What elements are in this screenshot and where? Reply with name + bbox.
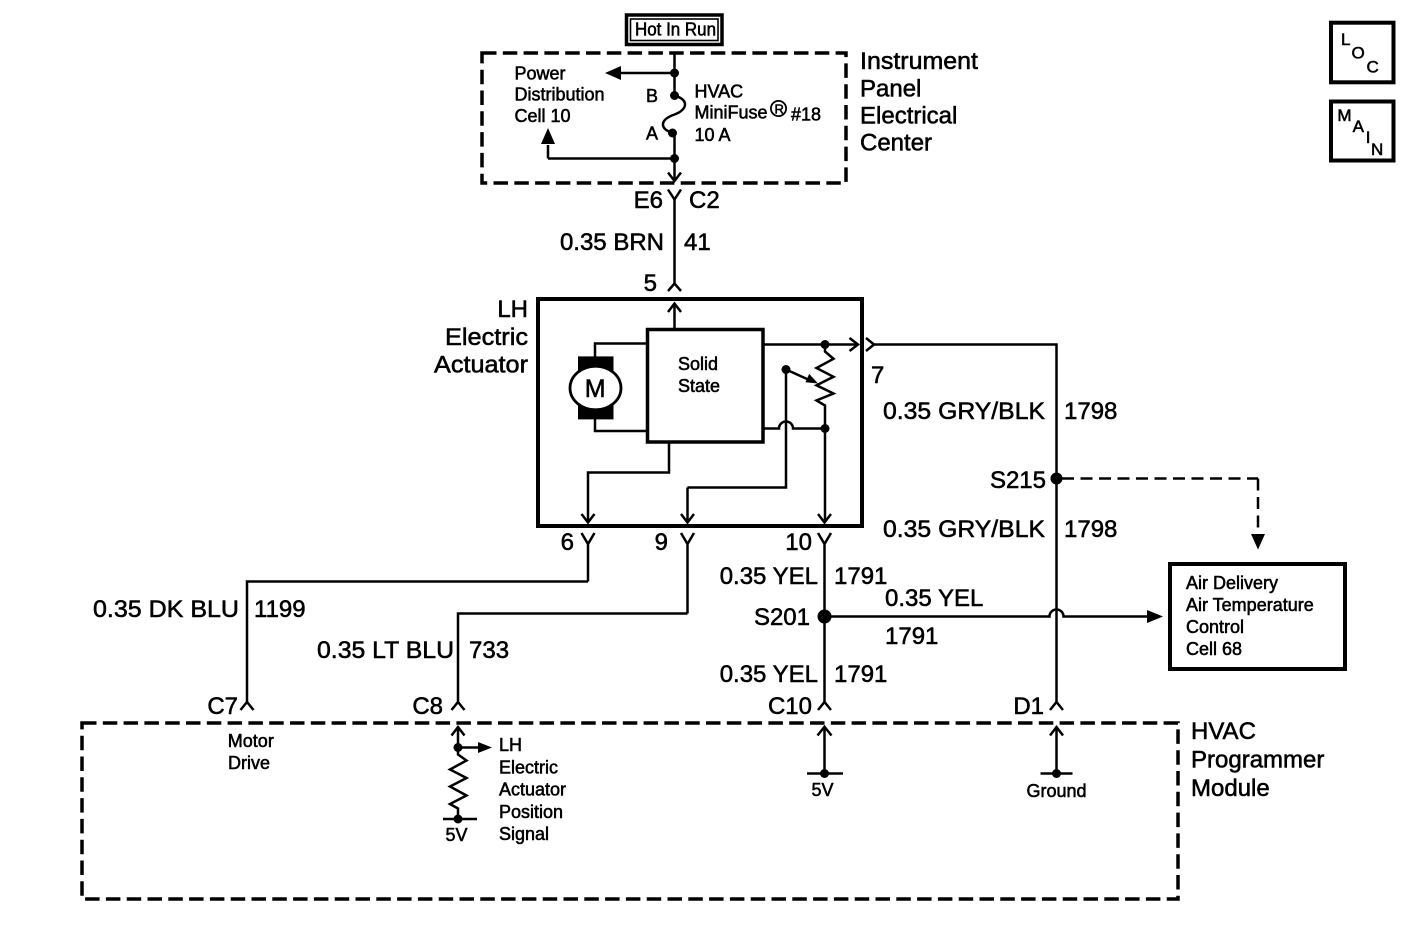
svg-text:C8: C8 bbox=[412, 693, 443, 720]
svg-text:Cell 10: Cell 10 bbox=[515, 106, 571, 126]
D1 entry arrow (open chevron up) bbox=[1050, 727, 1063, 774]
svg-text:0.35 BRN: 0.35 BRN bbox=[560, 229, 664, 256]
svg-text:M: M bbox=[585, 375, 606, 403]
wire motor bottom to solid state bbox=[595, 418, 648, 431]
svg-text:A: A bbox=[1353, 117, 1365, 136]
connector 6 (Y symbol) bbox=[582, 533, 595, 582]
svg-text:0.35 YEL: 0.35 YEL bbox=[720, 563, 818, 590]
wire solid state to pot bottom (with hop) bbox=[763, 422, 825, 429]
wire S201 to Air Delivery (with hop over 1798 wire) bbox=[825, 610, 1149, 617]
svg-text:1791: 1791 bbox=[834, 563, 887, 590]
svg-text:LH: LH bbox=[499, 735, 522, 755]
connector 7 chevron bbox=[866, 338, 874, 351]
svg-text:Electrical: Electrical bbox=[860, 103, 957, 130]
pin 5 caret connector bbox=[668, 284, 681, 292]
svg-text:Power: Power bbox=[515, 64, 566, 84]
Instrument Panel Electrical Center dashed box bbox=[482, 53, 846, 183]
junction at potentiometer top bbox=[821, 340, 830, 349]
position sense resistor inside module bbox=[450, 748, 467, 820]
svg-text:Programmer: Programmer bbox=[1191, 747, 1324, 774]
connector C7 caret bbox=[241, 702, 254, 710]
HVAC Programmer Module dashed box bbox=[82, 723, 1178, 899]
label Motor Drive (C7 function) bbox=[228, 731, 274, 773]
wire 0.35 BRN 41 bbox=[673, 200, 676, 285]
svg-text:A: A bbox=[646, 124, 658, 144]
svg-text:Instrument: Instrument bbox=[860, 48, 978, 75]
C10 entry arrow (open chevron up) bbox=[818, 727, 832, 774]
svg-text:C2: C2 bbox=[689, 187, 720, 214]
C8 entry arrow (open chevron up) bbox=[452, 727, 465, 748]
svg-text:Actuator: Actuator bbox=[434, 352, 528, 379]
svg-text:Electric: Electric bbox=[445, 324, 528, 351]
connector E6/C2 (Y symbol) bbox=[668, 190, 681, 200]
svg-text:L: L bbox=[1341, 30, 1350, 49]
connector 10 (Y symbol) bbox=[818, 533, 831, 702]
power source label box "Hot In Run" bbox=[627, 15, 723, 45]
svg-text:Air Delivery: Air Delivery bbox=[1186, 573, 1278, 593]
connector 9 (Y symbol) bbox=[681, 533, 694, 614]
svg-text:Module: Module bbox=[1191, 775, 1270, 802]
svg-text:5: 5 bbox=[644, 270, 657, 297]
svg-text:C10: C10 bbox=[768, 693, 812, 720]
wire motor top to solid state bbox=[595, 344, 648, 358]
wire from fuse A down to IPEC boundary bbox=[673, 133, 676, 180]
pin 9 wire down bbox=[686, 488, 689, 521]
connector C10 caret bbox=[818, 702, 831, 710]
connector C8 caret bbox=[452, 702, 465, 710]
svg-text:HVAC: HVAC bbox=[1191, 718, 1256, 745]
svg-text:#18: #18 bbox=[791, 105, 821, 125]
junction to power distribution (bottom) bbox=[670, 154, 679, 163]
svg-text:1791: 1791 bbox=[834, 661, 887, 688]
wire solid state to pin 7 bbox=[763, 343, 856, 346]
svg-text:733: 733 bbox=[469, 637, 509, 664]
svg-text:HVAC: HVAC bbox=[695, 82, 744, 102]
svg-text:0.35 LT BLU: 0.35 LT BLU bbox=[317, 637, 454, 664]
label LH Electric Actuator Position Signal bbox=[499, 735, 566, 844]
svg-text:S215: S215 bbox=[990, 467, 1046, 494]
5V rail bar at C10 bbox=[807, 772, 843, 775]
MAIN reference box bbox=[1331, 102, 1394, 161]
svg-text:5V: 5V bbox=[446, 825, 468, 845]
svg-text:1798: 1798 bbox=[1064, 398, 1117, 425]
svg-text:C7: C7 bbox=[207, 693, 238, 720]
label HVAC Programmer Module bbox=[1191, 718, 1324, 802]
svg-text:Signal: Signal bbox=[499, 824, 549, 844]
svg-text:R: R bbox=[775, 101, 784, 116]
svg-text:1798: 1798 bbox=[1064, 516, 1117, 543]
svg-text:Control: Control bbox=[1186, 617, 1244, 637]
wiper of potentiometer bbox=[782, 365, 791, 374]
svg-text:Hot In Run: Hot In Run bbox=[635, 20, 716, 40]
wire to Power Distribution Cell 10 (bottom, with solid up arrow) bbox=[548, 145, 675, 159]
svg-text:D1: D1 bbox=[1013, 693, 1044, 720]
svg-text:0.35 GRY/BLK: 0.35 GRY/BLK bbox=[883, 516, 1045, 543]
wiper wire down bbox=[688, 370, 787, 488]
svg-text:5V: 5V bbox=[812, 780, 834, 800]
label Power Distribution Cell 10 bbox=[515, 64, 605, 127]
wire from Hot In Run into fuse bbox=[673, 54, 676, 96]
label Instrument Panel Electrical Center bbox=[860, 48, 978, 157]
potentiometer (feedback resistor) bbox=[817, 345, 834, 523]
svg-text:1199: 1199 bbox=[254, 596, 306, 623]
svg-text:Position: Position bbox=[499, 802, 563, 822]
svg-text:State: State bbox=[678, 376, 720, 396]
pin 5 entry arrow inside actuator (open chevron up) bbox=[668, 304, 681, 330]
wire to Power Distribution Cell 10 (top, with solid left arrow) bbox=[619, 72, 675, 75]
junction at C8 signal tap bbox=[454, 743, 463, 752]
signal tap arrow to LH label bbox=[458, 746, 480, 749]
LOC reference box bbox=[1331, 23, 1394, 83]
svg-text:S201: S201 bbox=[754, 604, 810, 631]
svg-text:Panel: Panel bbox=[860, 76, 921, 103]
junction to power distribution (top) bbox=[670, 69, 679, 78]
pin 6 exit arrow bbox=[582, 514, 595, 523]
connector D1 caret bbox=[1050, 702, 1063, 710]
svg-text:Ground: Ground bbox=[1027, 781, 1087, 801]
wire 9 run to C8 bbox=[458, 614, 688, 702]
svg-text:7: 7 bbox=[871, 362, 884, 389]
ground rail bar at D1 bbox=[1041, 772, 1073, 775]
svg-text:I: I bbox=[1366, 128, 1371, 147]
svg-text:41: 41 bbox=[684, 229, 711, 256]
svg-text:MiniFuse: MiniFuse bbox=[695, 102, 768, 122]
svg-text:C: C bbox=[1367, 57, 1379, 76]
svg-text:10 A: 10 A bbox=[695, 125, 731, 145]
pin 7 exit arrow (open chevron right) bbox=[850, 338, 859, 351]
pin 10 exit arrow bbox=[818, 514, 831, 523]
splice S201 bbox=[818, 610, 832, 624]
svg-text:O: O bbox=[1352, 44, 1365, 63]
splice S215 bbox=[1051, 473, 1063, 485]
svg-text:LH: LH bbox=[497, 296, 528, 323]
svg-text:Air Temperature: Air Temperature bbox=[1186, 595, 1314, 615]
svg-text:6: 6 bbox=[561, 529, 574, 556]
svg-text:E6: E6 bbox=[634, 187, 663, 214]
fuse HVAC MiniFuse #18 (element between pins B and A) bbox=[663, 96, 685, 134]
solid state box bbox=[648, 330, 764, 443]
5V rail bar at C8 bbox=[443, 818, 477, 821]
svg-text:N: N bbox=[1371, 140, 1383, 159]
dashed reference wire from S215 to Air Delivery cell bbox=[1062, 479, 1258, 534]
svg-text:Electric: Electric bbox=[499, 757, 558, 777]
svg-text:Solid: Solid bbox=[678, 354, 718, 374]
svg-text:0.35 YEL: 0.35 YEL bbox=[720, 661, 818, 688]
Air Delivery Air Temperature Control Cell 68 box bbox=[1170, 564, 1345, 669]
svg-text:Distribution: Distribution bbox=[515, 85, 605, 105]
svg-text:10: 10 bbox=[785, 529, 812, 556]
svg-text:M: M bbox=[1337, 106, 1351, 125]
svg-text:0.35 GRY/BLK: 0.35 GRY/BLK bbox=[883, 398, 1045, 425]
label LH Electric Actuator bbox=[434, 296, 528, 379]
svg-text:Center: Center bbox=[860, 130, 932, 157]
wire pin 7 to vertical 1798 run bbox=[874, 345, 1057, 702]
wire solid state bottom to pin 6 bbox=[588, 442, 669, 521]
pin E6 exit arrow (open chevron down) bbox=[668, 173, 681, 182]
svg-text:0.35 DK BLU: 0.35 DK BLU bbox=[93, 596, 239, 623]
svg-text:Cell 68: Cell 68 bbox=[1186, 639, 1242, 659]
svg-text:Motor: Motor bbox=[228, 731, 274, 751]
svg-text:B: B bbox=[646, 86, 658, 106]
label HVAC MiniFuse (R) #18 10 A bbox=[695, 82, 822, 145]
svg-text:0.35 YEL: 0.35 YEL bbox=[885, 585, 983, 612]
svg-text:1791: 1791 bbox=[885, 623, 938, 650]
LH Electric Actuator box bbox=[538, 299, 862, 526]
pin 9 exit arrow bbox=[681, 514, 694, 523]
motor M bbox=[570, 356, 621, 419]
junction at pot bottom bbox=[821, 424, 830, 433]
svg-text:Drive: Drive bbox=[228, 753, 270, 773]
wire 6 run to C7 bbox=[247, 582, 588, 702]
svg-text:Actuator: Actuator bbox=[499, 780, 566, 800]
svg-text:9: 9 bbox=[655, 529, 668, 556]
